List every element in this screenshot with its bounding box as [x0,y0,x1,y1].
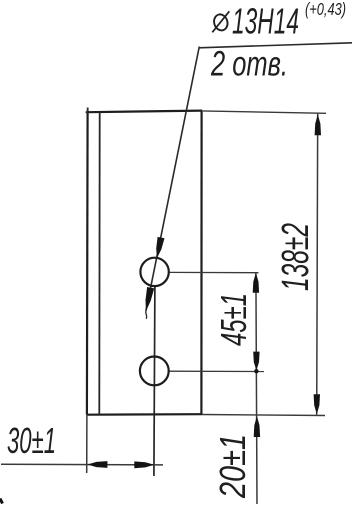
svg-text:45±1: 45±1 [213,293,254,346]
svg-text:138±2: 138±2 [275,223,317,291]
svg-text:(+0,43): (+0,43) [305,0,346,19]
svg-text:30±1: 30±1 [7,420,56,461]
svg-text:2 отв.: 2 отв. [210,45,288,84]
svg-text:13H14: 13H14 [232,1,299,42]
svg-text:20±1: 20±1 [212,434,253,499]
